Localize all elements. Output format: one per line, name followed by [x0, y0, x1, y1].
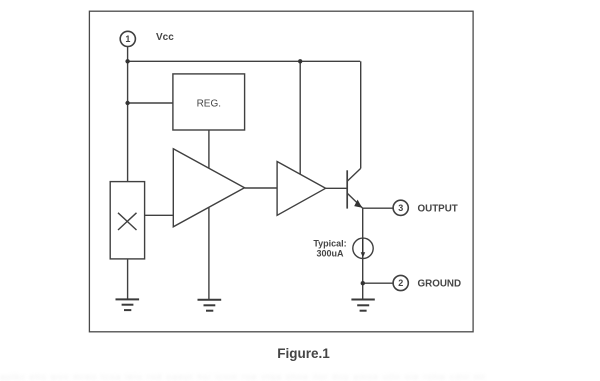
svg-text:1: 1 [125, 34, 130, 44]
svg-text:3: 3 [398, 203, 403, 213]
svg-text:Typical:: Typical: [313, 238, 346, 248]
svg-text:2: 2 [398, 278, 403, 288]
svg-text:OUTPUT: OUTPUT [418, 203, 458, 214]
svg-text:Figure.1: Figure.1 [277, 346, 330, 361]
svg-text:300uA: 300uA [316, 248, 344, 258]
svg-text:Vcc: Vcc [156, 32, 174, 43]
svg-text:GROUND: GROUND [418, 278, 462, 289]
svg-text:REG.: REG. [197, 99, 221, 110]
